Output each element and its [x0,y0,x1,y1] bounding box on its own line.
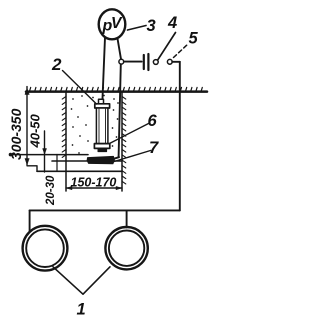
svg-text:5: 5 [189,30,199,48]
dimension arrow top [25,89,29,95]
svg-text:40-50: 40-50 [28,113,43,148]
leader to label 7 [113,151,151,163]
right ring inner [109,231,144,266]
svg-text:6: 6 [148,112,158,130]
wire: meter right terminal down to junction [118,39,122,60]
pit left wall [65,93,67,192]
cylinder inner wall lines [98,109,100,143]
pit right wall hatch [122,97,126,184]
cylinder body [96,108,108,144]
leader to label 3 [128,26,147,31]
cylinder bottom cap [94,144,109,149]
svg-text:7: 7 [149,139,159,157]
switch plug bar right [147,54,149,70]
cylinder foot [98,148,107,151]
V leader lines to label 1 [53,267,110,294]
svg-text:300-350: 300-350 [8,108,24,160]
cylinder device (item 6) top nub [99,99,104,104]
right ring electrode (item 1) outer [105,227,147,269]
svg-text:3: 3 [147,17,156,35]
left ring inner [26,229,64,267]
left ring electrode (item 1) outer [23,226,68,271]
switch plug bar left [143,55,145,69]
meter PV (item 3) [99,9,126,39]
dimension arrow 40-50 [43,149,47,155]
dashed leader to label 5 [174,44,189,58]
wire: junction down to plate 7 in pit [119,64,121,156]
arrow left [67,186,73,189]
link plate to wire [114,157,120,159]
svg-text:1: 1 [77,301,86,319]
pit left wall hatch [62,97,66,158]
pit bottom line [52,160,122,162]
svg-text:20-30: 20-30 [45,175,57,206]
wire: bottom horizontal bus [30,209,180,211]
pit right wall [121,93,123,192]
reference line with end dot [10,154,88,156]
switch lever (item 4) [158,33,176,60]
wire: meter left terminal down to cylinder top [103,38,106,99]
wire: stub to right ring [126,210,128,227]
plate 7 (black bar) [87,156,115,164]
dimension line 150-170 [66,187,122,189]
svg-text:4: 4 [167,14,177,32]
wire: right vertical down [179,62,181,211]
wire: left drop to left ring [29,210,31,231]
dimension line 300-350 (vertical) [26,87,28,165]
ground surface line [26,90,207,93]
switch terminal circle left [153,60,158,65]
dimension arrow bottom [25,159,29,165]
cylinder top cap [95,104,110,108]
wire: junction to switch [124,61,142,63]
ground hatch ticks [30,87,203,91]
dimension line 40-50 (vertical) [44,131,46,172]
dimension step line [27,166,37,172]
end dot [9,153,13,157]
switch terminal circle right [167,59,172,64]
lower reference line [37,170,122,172]
short extension line [56,155,58,172]
svg-text:150-170: 150-170 [71,176,117,190]
soil texture dots in pit [71,95,119,154]
leader to label 6 [110,124,149,144]
leader from label 2 to pit [63,71,97,105]
svg-text:2: 2 [51,55,62,74]
arrow right [116,186,122,189]
junction terminal circle [119,59,124,64]
wire: switch right terminal to right vertical [172,61,180,63]
svg-text:V: V [111,15,123,32]
